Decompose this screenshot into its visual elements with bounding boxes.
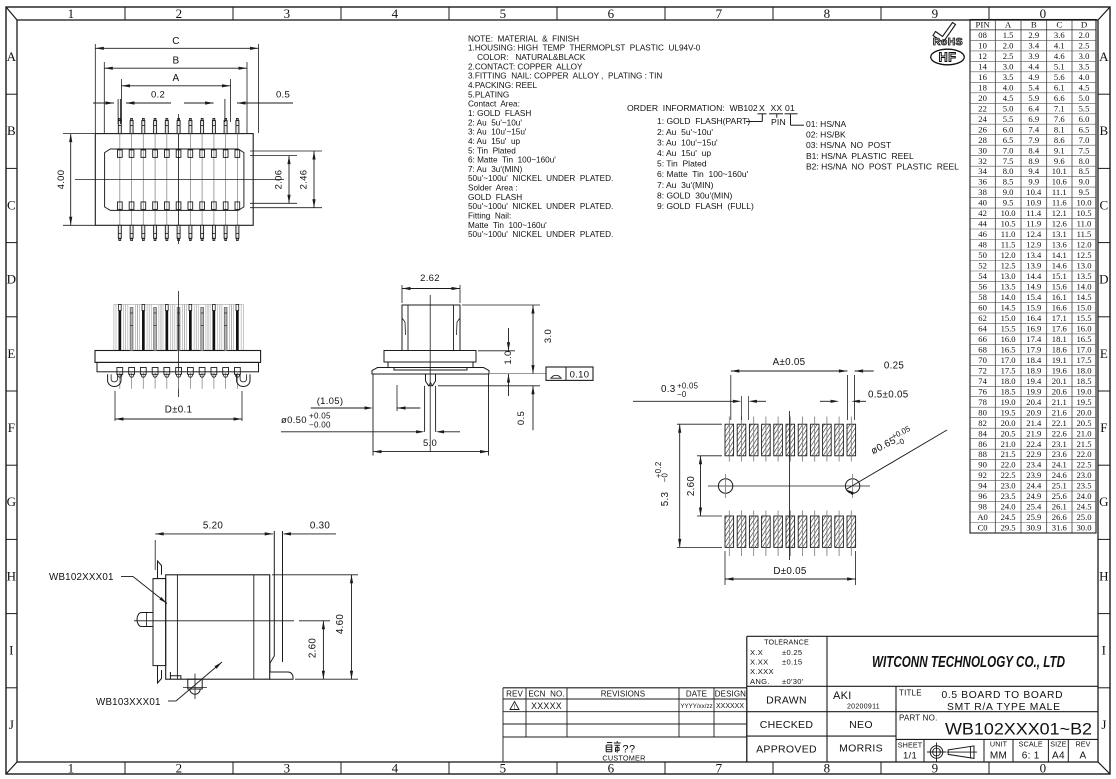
svg-text:10.6: 10.6 — [1052, 177, 1068, 187]
svg-text:XX: XX — [771, 103, 783, 113]
svg-text:2.0: 2.0 — [1079, 30, 1090, 40]
svg-text:PIN: PIN — [976, 20, 991, 30]
svg-text:6: 1: 6: 1 — [1022, 751, 1040, 762]
svg-text:13.5: 13.5 — [1001, 282, 1016, 292]
svg-text:0.5: 0.5 — [516, 411, 527, 425]
svg-text:X.XXX: X.XXX — [750, 667, 774, 676]
svg-text:14.5: 14.5 — [1001, 303, 1016, 313]
svg-text:14.9: 14.9 — [1026, 282, 1041, 292]
svg-text:6.6: 6.6 — [1054, 93, 1065, 103]
svg-text:40: 40 — [978, 198, 987, 208]
svg-text:9.1: 9.1 — [1054, 145, 1065, 155]
svg-text:15.6: 15.6 — [1052, 282, 1068, 292]
svg-text:4: 4 — [392, 6, 399, 21]
svg-text:17.1: 17.1 — [1052, 313, 1067, 323]
svg-text:X.XX: X.XX — [750, 658, 769, 667]
svg-text:C: C — [7, 197, 16, 212]
svg-text:24.6: 24.6 — [1052, 470, 1068, 480]
svg-text:14.1: 14.1 — [1052, 250, 1067, 260]
svg-text:2.CONTACT: COPPER ALLOY: 2.CONTACT: COPPER ALLOY — [468, 62, 583, 71]
svg-text:44: 44 — [978, 219, 987, 229]
svg-text:H: H — [7, 568, 17, 583]
svg-text:12.0: 12.0 — [1076, 240, 1091, 250]
svg-text:9: 9 — [932, 6, 939, 21]
svg-text:15.0: 15.0 — [1001, 313, 1016, 323]
svg-text:A: A — [7, 49, 17, 64]
svg-text:03: HS/NA NO POST: 03: HS/NA NO POST — [806, 140, 891, 150]
svg-text:26.6: 26.6 — [1052, 512, 1068, 522]
svg-text:19.6: 19.6 — [1052, 365, 1068, 375]
svg-text:13.9: 13.9 — [1026, 261, 1041, 271]
svg-text:12.5: 12.5 — [1001, 261, 1016, 271]
svg-text:+0.05: +0.05 — [309, 412, 331, 421]
svg-text:18.9: 18.9 — [1026, 365, 1041, 375]
svg-text:8.0: 8.0 — [1003, 166, 1014, 176]
svg-text:SCALE: SCALE — [1019, 740, 1043, 749]
svg-text:6: 6 — [608, 761, 615, 776]
svg-text:ECN NO.: ECN NO. — [528, 689, 564, 698]
svg-text:6.9: 6.9 — [1028, 114, 1039, 124]
svg-text:26.1: 26.1 — [1052, 502, 1067, 512]
svg-text:29.5: 29.5 — [1001, 523, 1016, 533]
svg-text:13.1: 13.1 — [1052, 229, 1067, 239]
svg-text:8.5: 8.5 — [1003, 177, 1014, 187]
svg-text:23.6: 23.6 — [1052, 449, 1068, 459]
svg-text:22: 22 — [978, 103, 987, 113]
svg-text:50u'~100u' NICKEL UNDER PLA: 50u'~100u' NICKEL UNDER PLATED. — [468, 202, 613, 211]
svg-text:ORDER INFORMATION: WB102: ORDER INFORMATION: WB102 — [627, 103, 758, 113]
svg-text:0.5: 0.5 — [276, 90, 290, 101]
svg-text:11.5: 11.5 — [1077, 229, 1092, 239]
svg-text:19.1: 19.1 — [1052, 355, 1067, 365]
svg-text:5.0: 5.0 — [423, 438, 437, 449]
svg-text:22.0: 22.0 — [1076, 449, 1091, 459]
svg-text:12.5: 12.5 — [1076, 250, 1091, 260]
svg-text:16: 16 — [978, 72, 987, 82]
svg-text:74: 74 — [978, 376, 987, 386]
svg-text:18.1: 18.1 — [1052, 334, 1067, 344]
svg-text:52: 52 — [978, 261, 987, 271]
svg-text:7.0: 7.0 — [1003, 145, 1014, 155]
svg-text:42: 42 — [978, 208, 987, 218]
svg-text:G: G — [1099, 494, 1109, 509]
svg-text:14.5: 14.5 — [1076, 292, 1091, 302]
svg-text:25.9: 25.9 — [1026, 512, 1041, 522]
svg-text:24.4: 24.4 — [1026, 481, 1042, 491]
svg-text:2: Au 5u'~10u': 2: Au 5u'~10u' — [468, 118, 522, 127]
svg-text:3.6: 3.6 — [1054, 30, 1065, 40]
svg-text:0.5±0.05: 0.5±0.05 — [868, 390, 909, 401]
svg-text:26: 26 — [978, 124, 987, 134]
svg-text:19.5: 19.5 — [1076, 397, 1091, 407]
svg-text:20.1: 20.1 — [1052, 376, 1067, 386]
svg-text:8.1: 8.1 — [1054, 124, 1065, 134]
svg-text:90: 90 — [978, 460, 987, 470]
svg-text:30: 30 — [978, 145, 987, 155]
svg-text:9.0: 9.0 — [1079, 177, 1090, 187]
svg-text:31.6: 31.6 — [1052, 523, 1068, 533]
svg-text:23.4: 23.4 — [1026, 460, 1042, 470]
svg-text:1.5: 1.5 — [1003, 30, 1014, 40]
svg-text:28: 28 — [978, 135, 987, 145]
svg-text:22.4: 22.4 — [1026, 439, 1042, 449]
svg-text:UNIT: UNIT — [990, 740, 1008, 749]
svg-text:7.5: 7.5 — [1003, 156, 1014, 166]
svg-text:22.6: 22.6 — [1052, 428, 1068, 438]
svg-text:72: 72 — [978, 365, 987, 375]
svg-text:2.5: 2.5 — [1079, 41, 1090, 51]
svg-text:RoHS: RoHS — [933, 36, 963, 48]
svg-text:PART NO.: PART NO. — [899, 714, 938, 723]
svg-text:13.4: 13.4 — [1026, 250, 1042, 260]
svg-text:17.0: 17.0 — [1076, 344, 1091, 354]
svg-text:6.5: 6.5 — [1003, 135, 1014, 145]
svg-text:3.0: 3.0 — [1003, 61, 1014, 71]
svg-text:7.6: 7.6 — [1054, 114, 1065, 124]
svg-text:MORRIS: MORRIS — [839, 743, 883, 755]
svg-text:3: Au 10u'~15u': 3: Au 10u'~15u' — [468, 128, 527, 137]
svg-text:23.0: 23.0 — [1001, 481, 1016, 491]
svg-text:23.5: 23.5 — [1076, 481, 1091, 491]
svg-text:9: GOLD FLASH (FULL): 9: GOLD FLASH (FULL) — [657, 201, 754, 211]
svg-text:36: 36 — [978, 177, 987, 187]
svg-text:7: 7 — [716, 6, 723, 21]
svg-text:13.5: 13.5 — [1076, 271, 1091, 281]
svg-text:5.5: 5.5 — [1079, 103, 1090, 113]
svg-text:±0.25: ±0.25 — [782, 648, 802, 657]
svg-text:50: 50 — [978, 250, 987, 260]
svg-text:48: 48 — [978, 240, 987, 250]
svg-text:8: 8 — [824, 6, 831, 21]
svg-text:2.46: 2.46 — [299, 170, 310, 190]
svg-text:NEO: NEO — [849, 719, 873, 731]
svg-text:B: B — [1100, 123, 1109, 138]
svg-text:16.1: 16.1 — [1052, 292, 1067, 302]
svg-text:12.4: 12.4 — [1026, 229, 1042, 239]
svg-text:4.9: 4.9 — [1028, 72, 1039, 82]
svg-text:58: 58 — [978, 292, 987, 302]
svg-text:14.0: 14.0 — [1076, 282, 1091, 292]
svg-text:COLOR: NATURAL&BLACK: COLOR: NATURAL&BLACK — [468, 53, 586, 62]
svg-text:8: GOLD 30u'(MIN): 8: GOLD 30u'(MIN) — [657, 190, 732, 200]
svg-text:D±0.05: D±0.05 — [773, 566, 807, 577]
svg-text:56: 56 — [978, 282, 987, 292]
svg-text:6: Matte Tin 100~160u': 6: Matte Tin 100~160u' — [657, 169, 749, 179]
svg-text:TOLERANCE: TOLERANCE — [764, 638, 809, 647]
svg-text:17.5: 17.5 — [1001, 365, 1016, 375]
svg-text:8.5: 8.5 — [1079, 166, 1090, 176]
svg-text:24.9: 24.9 — [1026, 491, 1041, 501]
svg-text:18.5: 18.5 — [1076, 376, 1091, 386]
svg-text:20.9: 20.9 — [1026, 407, 1041, 417]
svg-text:6: Matte Tin 100~160u': 6: Matte Tin 100~160u' — [468, 156, 556, 165]
svg-text:10.0: 10.0 — [1076, 198, 1091, 208]
svg-text:23.1: 23.1 — [1052, 439, 1067, 449]
svg-text:4.1: 4.1 — [1054, 41, 1065, 51]
svg-text:0.30: 0.30 — [310, 521, 331, 532]
svg-text:DATE: DATE — [686, 689, 707, 698]
svg-text:23.5: 23.5 — [1001, 491, 1016, 501]
svg-text:1: 1 — [68, 6, 75, 21]
svg-text:4.PACKING: REEL: 4.PACKING: REEL — [468, 81, 537, 90]
svg-text:3: Au 10u'~15u': 3: Au 10u'~15u' — [657, 137, 718, 147]
svg-text:A: A — [1080, 751, 1087, 762]
svg-text:4.0: 4.0 — [1003, 82, 1014, 92]
svg-text:3: 3 — [284, 761, 291, 776]
svg-text:4: Au 15u' up: 4: Au 15u' up — [468, 137, 521, 146]
svg-text:20.0: 20.0 — [1076, 407, 1091, 417]
svg-text:20: 20 — [978, 93, 987, 103]
svg-text:0.3: 0.3 — [661, 384, 676, 395]
svg-text:6.0: 6.0 — [1003, 124, 1014, 134]
svg-text:15.1: 15.1 — [1052, 271, 1067, 281]
svg-text:5.0: 5.0 — [1079, 93, 1090, 103]
svg-text:21.9: 21.9 — [1026, 428, 1041, 438]
svg-text:15.5: 15.5 — [1076, 313, 1091, 323]
svg-text:21.5: 21.5 — [1001, 449, 1016, 459]
svg-text:98: 98 — [978, 502, 987, 512]
svg-text:2.5: 2.5 — [1003, 51, 1014, 61]
svg-text:66: 66 — [978, 334, 987, 344]
svg-text:12.6: 12.6 — [1052, 219, 1068, 229]
svg-text:3: 3 — [284, 6, 291, 21]
svg-text:24.5: 24.5 — [1076, 502, 1091, 512]
svg-text:11.4: 11.4 — [1026, 208, 1041, 218]
svg-text:21.4: 21.4 — [1026, 418, 1042, 428]
svg-text:C: C — [1100, 197, 1109, 212]
svg-text:13.0: 13.0 — [1076, 261, 1091, 271]
svg-text:13.6: 13.6 — [1052, 240, 1068, 250]
svg-text:5: Tin Plated: 5: Tin Plated — [468, 146, 516, 155]
svg-text:WB103XXX01: WB103XXX01 — [96, 697, 161, 708]
svg-text:Fitting Nail:: Fitting Nail: — [468, 212, 511, 221]
svg-text:30.0: 30.0 — [1076, 523, 1091, 533]
svg-text:A: A — [1005, 20, 1012, 30]
svg-text:6: 6 — [608, 6, 615, 21]
svg-text:18.4: 18.4 — [1026, 355, 1042, 365]
svg-text:CUSTOMER: CUSTOMER — [602, 753, 645, 762]
svg-text:−0: −0 — [677, 390, 687, 399]
svg-text:21.0: 21.0 — [1076, 428, 1091, 438]
svg-text:6.0: 6.0 — [1079, 114, 1090, 124]
svg-text:50u'~100u' NICKEL UNDER PLA: 50u'~100u' NICKEL UNDER PLATED. — [468, 174, 613, 183]
svg-text:(1.05): (1.05) — [317, 396, 344, 407]
svg-text:84: 84 — [978, 428, 987, 438]
svg-text:F: F — [1100, 420, 1108, 435]
svg-text:12.1: 12.1 — [1052, 208, 1067, 218]
svg-text:B2: HS/NA NO POST PLASTIC: B2: HS/NA NO POST PLASTIC REEL — [806, 161, 959, 171]
svg-text:3.5: 3.5 — [1079, 61, 1090, 71]
svg-text:8.0: 8.0 — [1079, 156, 1090, 166]
svg-text:C: C — [172, 36, 180, 47]
svg-text:REVISIONS: REVISIONS — [601, 689, 645, 698]
svg-text:86: 86 — [978, 439, 987, 449]
svg-text:9.9: 9.9 — [1028, 177, 1039, 187]
svg-text:4.5: 4.5 — [1079, 82, 1090, 92]
svg-text:15.9: 15.9 — [1026, 303, 1041, 313]
svg-text:2: Au 5u'~10u': 2: Au 5u'~10u' — [657, 127, 713, 137]
svg-text:4.5: 4.5 — [1003, 93, 1014, 103]
svg-text:REV: REV — [506, 689, 523, 698]
svg-text:CHECKED: CHECKED — [760, 719, 814, 731]
svg-text:21.5: 21.5 — [1076, 439, 1091, 449]
svg-text:17.4: 17.4 — [1026, 334, 1042, 344]
svg-text:D: D — [1099, 272, 1109, 287]
svg-text:4: Au 15u' up: 4: Au 15u' up — [657, 148, 711, 158]
svg-text:6.5: 6.5 — [1079, 124, 1090, 134]
svg-text:18.0: 18.0 — [1076, 365, 1091, 375]
svg-text:6.1: 6.1 — [1054, 82, 1065, 92]
svg-text:21.6: 21.6 — [1052, 407, 1068, 417]
svg-text:A0: A0 — [977, 512, 988, 522]
svg-text:25.1: 25.1 — [1052, 481, 1067, 491]
svg-text:3.FITTING NAIL: COPPER ALLOY: 3.FITTING NAIL: COPPER ALLOY , PLATING :… — [468, 72, 662, 81]
svg-text:8.4: 8.4 — [1028, 145, 1039, 155]
svg-text:A4: A4 — [1052, 751, 1065, 762]
svg-text:38: 38 — [978, 187, 987, 197]
svg-text:9.5: 9.5 — [1079, 187, 1090, 197]
svg-text:21.0: 21.0 — [1001, 439, 1016, 449]
svg-text:24.0: 24.0 — [1001, 502, 1016, 512]
svg-text:20.4: 20.4 — [1026, 397, 1042, 407]
svg-text:46: 46 — [978, 229, 987, 239]
svg-text:I: I — [1102, 643, 1107, 658]
svg-text:10.4: 10.4 — [1026, 187, 1042, 197]
svg-text:2.0: 2.0 — [1003, 41, 1014, 51]
svg-text:C0: C0 — [978, 523, 988, 533]
svg-text:!: ! — [514, 705, 516, 711]
svg-text:20.0: 20.0 — [1001, 418, 1016, 428]
svg-text:18.5: 18.5 — [1001, 386, 1016, 396]
svg-text:25.6: 25.6 — [1052, 491, 1068, 501]
svg-text:SMT R/A TYPE MALE: SMT R/A TYPE MALE — [947, 702, 1060, 713]
svg-text:15.0: 15.0 — [1076, 303, 1091, 313]
svg-text:1.HOUSING: HIGH TEMP THERMOP: 1.HOUSING: HIGH TEMP THERMOPLST PLASTIC … — [468, 44, 701, 53]
svg-text:18.6: 18.6 — [1052, 344, 1068, 354]
svg-text:3.5: 3.5 — [1003, 72, 1014, 82]
svg-text:9.0: 9.0 — [1003, 187, 1014, 197]
svg-text:01: HS/NA: 01: HS/NA — [806, 119, 846, 129]
svg-text:24: 24 — [978, 114, 987, 124]
svg-text:10.9: 10.9 — [1026, 198, 1041, 208]
svg-text:−0.00: −0.00 — [309, 421, 331, 430]
svg-text:G: G — [7, 494, 17, 509]
svg-text:15.4: 15.4 — [1026, 292, 1042, 302]
svg-text:54: 54 — [978, 271, 987, 281]
svg-text:±0.15: ±0.15 — [782, 658, 802, 667]
svg-text:4.0: 4.0 — [1079, 72, 1090, 82]
svg-text:76: 76 — [978, 386, 987, 396]
svg-text:0.2: 0.2 — [151, 90, 165, 101]
svg-text:9.5: 9.5 — [1003, 198, 1014, 208]
svg-text:5.6: 5.6 — [1054, 72, 1065, 82]
svg-text:16.5: 16.5 — [1076, 334, 1091, 344]
svg-text:5.20: 5.20 — [203, 521, 224, 532]
svg-text:15.5: 15.5 — [1001, 324, 1016, 334]
svg-text:3.4: 3.4 — [1028, 41, 1039, 51]
svg-text:7.5: 7.5 — [1079, 145, 1090, 155]
svg-text:5.PLATING: 5.PLATING — [468, 90, 509, 99]
svg-text:10.5: 10.5 — [1001, 219, 1016, 229]
svg-text:22.9: 22.9 — [1026, 449, 1041, 459]
svg-text:7: Au 3u'(MIN): 7: Au 3u'(MIN) — [468, 165, 523, 174]
svg-text:10.0: 10.0 — [1001, 208, 1016, 218]
svg-text:DESIGN: DESIGN — [715, 689, 746, 698]
svg-text:19.9: 19.9 — [1026, 386, 1041, 396]
svg-text:X: X — [759, 103, 765, 113]
svg-text:0.10: 0.10 — [570, 370, 590, 381]
svg-text:24.5: 24.5 — [1001, 512, 1016, 522]
svg-text:H: H — [1099, 568, 1109, 583]
svg-text:APPROVED: APPROVED — [756, 744, 817, 756]
svg-text:4.00: 4.00 — [56, 170, 67, 190]
svg-text:14.0: 14.0 — [1001, 292, 1016, 302]
svg-text:D±0.1: D±0.1 — [165, 405, 193, 416]
svg-text:10: 10 — [978, 41, 987, 51]
svg-text:5.5: 5.5 — [1003, 114, 1014, 124]
svg-text:24.0: 24.0 — [1076, 491, 1091, 501]
svg-text:19.0: 19.0 — [1001, 397, 1016, 407]
svg-text:9.6: 9.6 — [1054, 156, 1065, 166]
svg-text:12.9: 12.9 — [1026, 240, 1041, 250]
svg-text:XXXXXX: XXXXXX — [716, 703, 744, 710]
svg-text:4.60: 4.60 — [335, 614, 346, 635]
svg-text:02: HS/BK: 02: HS/BK — [806, 130, 846, 140]
svg-text:5: Tin Plated: 5: Tin Plated — [657, 159, 707, 169]
svg-text:14.4: 14.4 — [1026, 271, 1042, 281]
svg-text:0.25: 0.25 — [884, 361, 905, 372]
svg-text:94: 94 — [978, 481, 987, 491]
svg-text:14.6: 14.6 — [1052, 261, 1068, 271]
svg-text:Contact Area:: Contact Area: — [468, 100, 520, 109]
svg-text:34: 34 — [978, 166, 987, 176]
svg-text:1.0: 1.0 — [503, 350, 514, 364]
svg-text:X.X: X.X — [750, 648, 763, 657]
svg-text:A±0.05: A±0.05 — [773, 357, 806, 368]
svg-text:5.9: 5.9 — [1028, 93, 1039, 103]
svg-text:C: C — [1056, 20, 1062, 30]
svg-text:19.4: 19.4 — [1026, 376, 1042, 386]
svg-text:19.5: 19.5 — [1001, 407, 1016, 417]
svg-text:8: 8 — [824, 761, 831, 776]
svg-text:A: A — [1099, 49, 1109, 64]
svg-text:7.0: 7.0 — [1079, 135, 1090, 145]
svg-text:2.62: 2.62 — [420, 273, 440, 284]
svg-text:60: 60 — [978, 303, 987, 313]
svg-text:20.6: 20.6 — [1052, 386, 1068, 396]
svg-text:10.5: 10.5 — [1076, 208, 1091, 218]
svg-text:13.0: 13.0 — [1001, 271, 1016, 281]
svg-text:62: 62 — [978, 313, 987, 323]
svg-text:0: 0 — [1040, 761, 1047, 776]
svg-text:ø0.50: ø0.50 — [281, 415, 307, 426]
svg-text:16.4: 16.4 — [1026, 313, 1042, 323]
svg-text:SHEET: SHEET — [898, 741, 923, 750]
svg-text:0.5 BOARD TO BOARD: 0.5 BOARD TO BOARD — [942, 690, 1063, 701]
svg-text:17.0: 17.0 — [1001, 355, 1016, 365]
svg-text:D: D — [7, 272, 17, 287]
svg-text:5.4: 5.4 — [1028, 82, 1039, 92]
svg-text:64: 64 — [978, 324, 987, 334]
svg-text:B: B — [7, 123, 16, 138]
svg-text:16.5: 16.5 — [1001, 344, 1016, 354]
svg-text:16.9: 16.9 — [1026, 324, 1041, 334]
svg-text:B: B — [173, 56, 180, 67]
svg-text:1: GOLD FLASH: 1: GOLD FLASH — [468, 109, 531, 118]
svg-text:E: E — [7, 346, 15, 361]
svg-text:82: 82 — [978, 418, 987, 428]
svg-text:18.0: 18.0 — [1001, 376, 1016, 386]
